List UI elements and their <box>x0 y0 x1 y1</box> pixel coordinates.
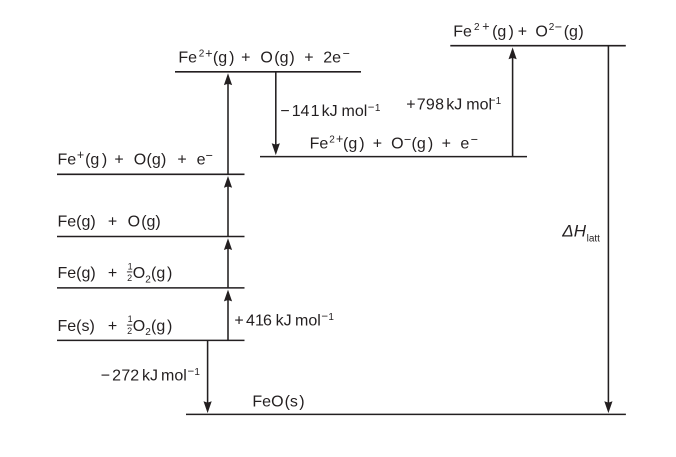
svg-text:FeO(s): FeO(s) <box>252 393 304 410</box>
svg-text:2: 2 <box>127 273 132 283</box>
svg-text:Fe(s)+: Fe(s)+ <box>58 318 118 335</box>
svg-text:−141kJmol−1: −141kJmol−1 <box>280 102 381 120</box>
svg-text:Fe2+(g)+O2−(g): Fe2+(g)+O2−(g) <box>453 20 584 41</box>
svg-text:ΔH: ΔH <box>561 222 586 241</box>
svg-text:Fe2+(g)+O−(g)+e−: Fe2+(g)+O−(g)+e− <box>310 132 479 152</box>
svg-text:Fe+(g)+O(g)+e−: Fe+(g)+O(g)+e− <box>58 148 213 168</box>
svg-text:latt: latt <box>587 234 601 245</box>
svg-text:Fe(g)+: Fe(g)+ <box>58 265 118 282</box>
svg-text:+416kJmol−1: +416kJmol−1 <box>234 311 334 329</box>
svg-text:O2(g): O2(g) <box>133 318 173 338</box>
svg-text:2: 2 <box>127 326 132 336</box>
svg-text:O2(g): O2(g) <box>133 265 173 285</box>
svg-text:Fe2+(g)+O(g)+2e−: Fe2+(g)+O(g)+2e− <box>178 46 350 66</box>
svg-text:+798kJmol−1: +798kJmol−1 <box>406 95 501 113</box>
svg-text:Fe(g)+O(g): Fe(g)+O(g) <box>58 213 161 230</box>
svg-text:−272kJmol−1: −272kJmol−1 <box>101 366 201 384</box>
